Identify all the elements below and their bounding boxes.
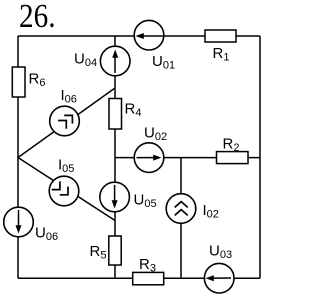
svg-text:R5: R5	[90, 243, 107, 262]
current source I05	[49, 157, 79, 206]
voltage source U04	[74, 46, 130, 76]
resistor R5	[90, 236, 122, 265]
wire diagonal upper	[18, 88, 115, 158]
svg-text:U02: U02	[144, 125, 167, 144]
svg-text:I05: I05	[58, 157, 74, 176]
svg-text:U03: U03	[209, 242, 232, 260]
svg-text:I02: I02	[203, 202, 219, 221]
wire left	[17, 36, 19, 278]
resistor R6	[12, 67, 45, 97]
wire diagonal lower	[18, 158, 115, 221]
wire right	[259, 36, 261, 278]
svg-text:U04: U04	[74, 51, 97, 69]
svg-text:R6: R6	[29, 71, 46, 90]
svg-text:U05: U05	[134, 192, 157, 211]
wire bottom	[18, 277, 260, 279]
resistor R4	[109, 99, 141, 130]
svg-text:26.: 26.	[19, 0, 56, 35]
voltage source U02	[134, 125, 167, 173]
resistor R3	[133, 256, 164, 285]
wire I02 branch	[180, 158, 182, 279]
voltage source U06	[4, 207, 58, 243]
resistor R2	[217, 135, 249, 163]
wire top	[18, 35, 260, 37]
current source I06	[50, 87, 80, 136]
current source I02	[166, 194, 219, 224]
wire middle vertical	[114, 36, 116, 278]
resistor R1	[205, 30, 236, 63]
svg-text:U06: U06	[35, 224, 58, 243]
svg-text:U01: U01	[152, 53, 175, 72]
voltage source U03	[204, 242, 234, 293]
svg-text:I06: I06	[61, 87, 77, 106]
svg-text:R3: R3	[139, 256, 156, 275]
voltage source U05	[100, 182, 157, 212]
voltage source U01	[134, 20, 175, 71]
svg-text:R4: R4	[125, 100, 142, 119]
svg-text:R2: R2	[223, 135, 240, 154]
wire U02 row	[115, 157, 260, 159]
svg-text:R1: R1	[213, 45, 230, 64]
